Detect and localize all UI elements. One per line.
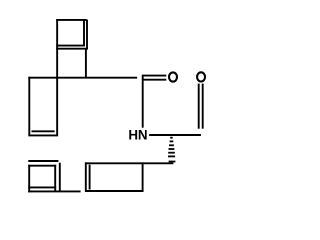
svg-text:N: N xyxy=(138,128,148,143)
svg-text:H: H xyxy=(128,128,138,143)
